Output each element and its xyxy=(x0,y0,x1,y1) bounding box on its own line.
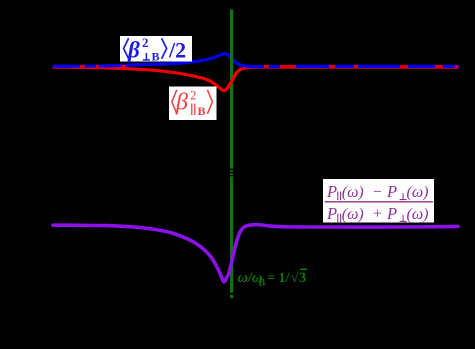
purple curve: polarization fraction xyxy=(53,225,458,282)
svg-text:−: − xyxy=(373,184,382,201)
rangle xyxy=(162,38,167,59)
red dash overlay segments where red covers blue on the flat parts xyxy=(80,65,458,68)
svg-text:+: + xyxy=(373,206,382,223)
svg-text:(ω): (ω) xyxy=(342,184,364,201)
sub parallel xyxy=(192,104,195,116)
svg-text:B: B xyxy=(198,104,206,118)
sub perp (drawn) xyxy=(143,53,150,60)
red segment crossing over the green line xyxy=(226,73,237,90)
red curve: parallel beta^2 xyxy=(54,67,458,90)
svg-text:(ω): (ω) xyxy=(407,206,429,223)
svg-text:2: 2 xyxy=(142,35,149,50)
svg-text:P: P xyxy=(326,182,337,201)
svg-text:/2: /2 xyxy=(168,38,186,63)
rangle xyxy=(207,90,212,114)
svg-text:P: P xyxy=(386,182,397,201)
blue label box xyxy=(120,35,192,64)
fraction bar xyxy=(325,201,434,203)
svg-text:(ω): (ω) xyxy=(342,206,364,223)
svg-text:2: 2 xyxy=(190,88,197,103)
svg-text:B: B xyxy=(259,278,266,289)
svg-text:β: β xyxy=(127,38,140,63)
svg-text:B: B xyxy=(152,50,160,64)
svg-text:P: P xyxy=(326,204,337,223)
blue curve: perp beta^2 / 2 xyxy=(54,54,458,67)
svg-text:β: β xyxy=(175,90,188,116)
green vertical line at omega/omega_B = 1/sqrt(3) xyxy=(230,10,234,299)
langle xyxy=(124,38,129,59)
svg-text:√3: √3 xyxy=(291,270,307,286)
svg-text:= 1/: = 1/ xyxy=(267,271,290,286)
green annotation text: omega/omega_B = 1/sqrt(3) xyxy=(238,269,308,288)
svg-text:P: P xyxy=(386,204,397,223)
svg-text:(ω): (ω) xyxy=(407,184,429,201)
purple fraction label box xyxy=(323,179,434,223)
red label box xyxy=(169,87,217,121)
langle xyxy=(172,90,177,114)
